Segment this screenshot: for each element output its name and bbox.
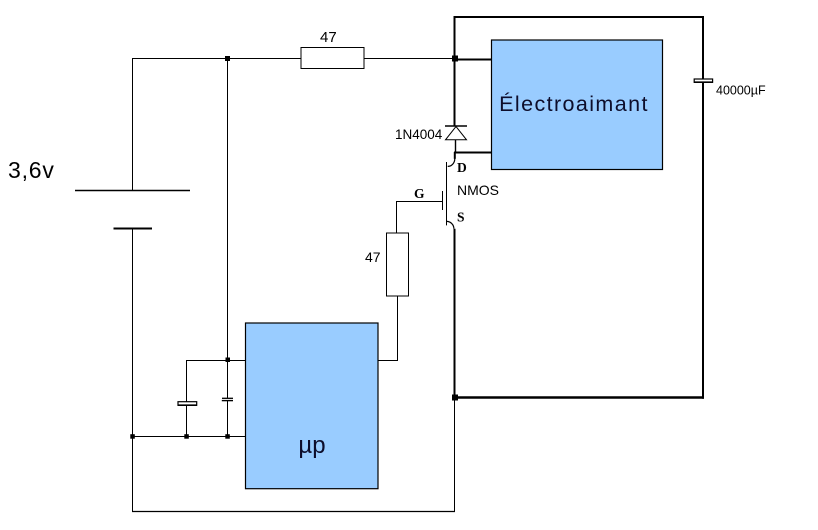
svg-text:S: S (457, 210, 465, 225)
battery B1 3,6v: long plate (75, 190, 190, 192)
resistor R2 47 (vertical) (387, 233, 409, 296)
svg-text:µp: µp (298, 432, 325, 459)
wire: C3 lower leg (227, 401, 229, 437)
transistor Q1: gate bar (442, 191, 444, 210)
capacitor C3 (ceramic): top plate (222, 397, 233, 399)
battery B1: short plate (114, 228, 153, 230)
wire: battery negative vertical down to bottom rail (132, 229, 134, 512)
wire: vertical from node A down to decoupling net (227, 59, 229, 399)
microprocessor box µp (246, 323, 379, 489)
wire: C2 upper leg (186, 360, 188, 402)
wire: C2 lower leg (186, 406, 188, 437)
svg-text:40000µF: 40000µF (716, 84, 766, 98)
wire: diode anode stub down to drain node (455, 140, 457, 152)
svg-text:Électroaimant: Électroaimant (499, 91, 649, 116)
svg-text:47: 47 (365, 249, 381, 265)
transistor Q1 NMOS: drain lead arc (454, 152, 456, 159)
node A junction dot at (227,58) (225, 56, 230, 61)
junction dot at (455,397) (452, 395, 458, 401)
transistor Q1: source lead arc (447, 221, 454, 228)
svg-text:NMOS: NMOS (457, 182, 499, 198)
wire: gate horizontal (397, 201, 443, 203)
svg-text:47: 47 (320, 29, 337, 46)
wire: lower decoupling rail into µp left side (132, 436, 246, 438)
svg-text:1N4004: 1N4004 (395, 127, 443, 142)
wire: source return vertical (thin) (454, 397, 456, 512)
diode D1 1N4004: cathode bar (445, 125, 467, 127)
junction dot at (186.5,436) (184, 434, 189, 439)
wire: node to electromagnet upper terminal (454, 59, 492, 61)
wire: gate branch vertical down to R2 (396, 201, 398, 233)
wire: decoupling top rail into µp left side (187, 360, 247, 362)
svg-text:G: G (414, 186, 425, 201)
big loop: left vertical upper segment (454, 16, 456, 126)
svg-text:D: D (457, 160, 467, 175)
junction dot at (132,436) (130, 434, 135, 439)
capacitor C3: bottom plate (222, 400, 233, 402)
capacitor C2: thicker bottom plate (178, 404, 197, 406)
transistor Q1: channel bar (446, 162, 448, 225)
capacitor C2 (polarized): tray plate (178, 402, 197, 406)
big loop: top wire (454, 16, 704, 18)
wire: below R2 down (397, 296, 399, 361)
wire: electromagnet lower terminal to drain (454, 152, 492, 154)
junction dot at node (455,58) (452, 56, 458, 62)
junction dot at (227.5,436) (225, 434, 230, 439)
svg-text:3,6v: 3,6v (8, 157, 55, 183)
electromagnet load box (492, 40, 663, 170)
junction dot at (227.5,360) (226, 358, 231, 363)
wire: top horizontal from battery to node (132, 58, 455, 60)
big loop: right vertical (702, 16, 704, 399)
capacitor C1 40000µF plate (tray) on right branch (694, 79, 712, 82)
resistor R1 47 (top, horizontal) (301, 48, 364, 69)
wire: horizontal into µp right side (378, 360, 398, 362)
diode D1: triangle (anode, pointing up) (446, 127, 467, 140)
wire: battery positive vertical (132, 59, 134, 191)
wire: bottom ground rail (132, 511, 455, 513)
big loop: bottom wire (454, 396, 704, 399)
wire: source down to loop bottom (thick) (454, 229, 456, 397)
